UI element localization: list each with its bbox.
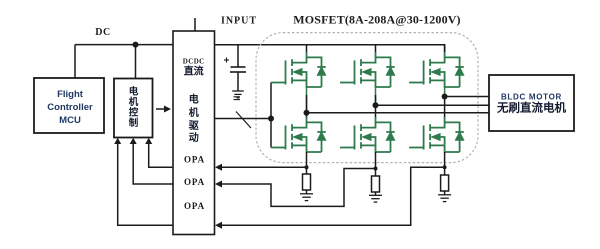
node phase A	[304, 110, 310, 116]
arrow sense C into OPA	[215, 222, 222, 229]
wire phase C to motor	[445, 96, 489, 98]
svg-text:动: 动	[189, 131, 199, 144]
wire gate drive line	[215, 118, 272, 120]
svg-text:电: 电	[129, 86, 139, 98]
flight controller MCU box U1	[34, 78, 104, 133]
capacitor C1	[230, 45, 246, 91]
node sense tap A	[305, 165, 309, 169]
svg-text:Controller: Controller	[47, 102, 93, 113]
wire DC+ rail to bridge	[215, 45, 445, 52]
wire Q5 source to phase C node	[444, 86, 446, 97]
svg-text:机: 机	[129, 96, 139, 108]
wire OPA1 output to motor control	[149, 142, 173, 167]
arrow motor-control to driver	[156, 106, 171, 113]
svg-text:驱: 驱	[189, 120, 199, 132]
wire sense line B	[218, 169, 376, 207]
svg-text:INPUT: INPUT	[221, 16, 257, 27]
svg-text:控: 控	[129, 107, 139, 119]
resistor R3	[441, 175, 449, 191]
svg-text:直流: 直流	[184, 65, 204, 78]
wire Q3 source to phase B node	[375, 86, 377, 105]
svg-text:Flight: Flight	[57, 89, 84, 100]
svg-text:BLDC MOTOR: BLDC MOTOR	[501, 93, 562, 102]
svg-text:OPA: OPA	[184, 155, 205, 165]
equals mark above switch	[234, 97, 241, 100]
BLDC motor box M1	[489, 75, 574, 131]
wire Q2 source to shunt R1	[306, 152, 308, 174]
wire Q6 source to shunt R3	[444, 152, 446, 175]
wire DC bus horizontal	[75, 44, 173, 46]
wire input stub	[194, 18, 196, 31]
transistor Q3 high-side	[340, 45, 395, 87]
DCDC driver box U2	[173, 31, 215, 235]
svg-text:制: 制	[129, 117, 139, 129]
svg-text:OPA: OPA	[184, 201, 205, 211]
switch slash mark	[236, 112, 251, 129]
transistor Q1 high-side	[271, 45, 326, 87]
svg-text:电: 电	[189, 93, 199, 106]
wire R1 to ground	[306, 190, 308, 194]
svg-text:MCU: MCU	[59, 115, 81, 126]
svg-text:MOSFET(8A-208A@30-1200V): MOSFET(8A-208A@30-1200V)	[293, 13, 460, 27]
wire OPA3 output to motor control	[118, 142, 173, 225]
wire R2 to ground	[375, 192, 377, 195]
ground for R2	[369, 195, 382, 202]
arrow sense B into OPA	[215, 181, 222, 188]
resistor R1	[303, 174, 311, 190]
node sense tap C	[443, 165, 447, 169]
resistor R2	[372, 176, 380, 192]
wire Q1 source to phase A node	[306, 86, 308, 113]
motor control box (电机控制)	[114, 79, 153, 138]
capacitor C1 polarity mark	[224, 58, 229, 63]
arrow OPA3 into motor control	[114, 138, 121, 144]
svg-text:DCDC: DCDC	[183, 58, 205, 66]
wire OPA2 output to motor control	[133, 142, 173, 184]
dashed bridge enclosure	[256, 33, 478, 163]
wire sense line C	[218, 167, 445, 225]
wire Q4 source to shunt R2	[375, 152, 377, 176]
wire bridge1 gate bus vertical	[270, 83, 272, 148]
svg-text:OPA: OPA	[184, 177, 205, 187]
ground for C1	[232, 91, 244, 98]
wire drop to motor-control box	[135, 45, 137, 79]
wire R3 to ground	[444, 191, 446, 195]
transistor Q5 high-side	[409, 45, 464, 87]
wire phase A to motor	[307, 112, 490, 114]
svg-text:机: 机	[189, 106, 199, 119]
node sense tap B	[374, 167, 378, 171]
transistor Q2 low-side	[271, 113, 326, 152]
wire phase B to motor	[376, 104, 490, 106]
transistor Q6 low-side	[409, 97, 464, 153]
wire sense line A	[218, 166, 307, 168]
transistor Q4 low-side	[340, 105, 395, 152]
svg-text:DC: DC	[95, 27, 110, 38]
arrow OPA1 into motor control	[145, 138, 152, 144]
node junction on DC bus	[133, 42, 139, 48]
svg-text:无刷直流电机: 无刷直流电机	[496, 101, 566, 115]
arrow OPA2 into motor control	[130, 138, 137, 144]
arrow sense A into OPA	[215, 164, 222, 171]
wire drop to Flight Controller	[74, 45, 76, 78]
ground for R3	[438, 195, 451, 202]
ground for R1	[300, 194, 313, 201]
node gate drive junction	[268, 116, 274, 122]
node phase C	[442, 94, 448, 100]
node phase B	[373, 102, 379, 108]
